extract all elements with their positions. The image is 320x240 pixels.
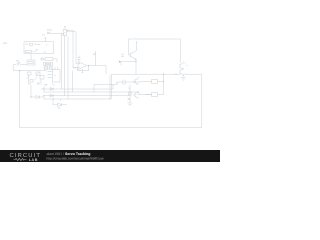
wire join x163.5 <box>163 74 165 94</box>
rail y74.5 <box>112 73 202 75</box>
wire vert x73 x76 to opamp <box>73 30 78 67</box>
component box B1 <box>44 63 53 66</box>
battery B2 <box>117 80 140 85</box>
ground G1 <box>128 103 133 106</box>
wire verticals from pot down <box>62 34 69 85</box>
svg-text:tm out: tm out <box>35 43 41 46</box>
transistor Q4 <box>133 91 138 98</box>
resistor R6 <box>152 93 158 97</box>
wire pot wiper right <box>67 30 76 32</box>
svg-text:http://circuitlab.com/circuit/: http://circuitlab.com/circuit/nsa/f6b8f1… <box>47 156 105 160</box>
wire pot left <box>47 33 63 35</box>
box module M1 <box>24 42 54 54</box>
diode D6 <box>53 99 67 107</box>
supply arrow V3 <box>136 42 138 50</box>
wire op-amp out <box>89 66 107 75</box>
svg-text:+5V: +5V <box>3 42 8 45</box>
potentiometer P1 <box>64 26 66 30</box>
probe node <box>119 61 121 63</box>
supply stub x95 <box>95 52 96 66</box>
op-amp U1 <box>78 62 87 70</box>
svg-text:servo: servo <box>47 29 53 32</box>
IC box U2 <box>53 70 61 83</box>
wire big loop left/bottom/right <box>20 71 202 128</box>
capacitor C1 <box>78 56 81 62</box>
svg-text:LAB: LAB <box>29 158 38 162</box>
bus wires <box>44 84 139 99</box>
wire top rect <box>129 39 181 55</box>
transistor Q3 <box>133 77 138 84</box>
transistor Q5 <box>180 69 184 77</box>
wire V2 to R2 <box>20 64 27 66</box>
resistor R4 <box>40 58 45 61</box>
mid column parts <box>128 84 132 103</box>
resistor R2 box <box>27 60 35 65</box>
row of boxes <box>44 67 53 69</box>
wire rail y70.7 <box>13 70 46 72</box>
footer bar <box>0 150 220 162</box>
resistor R5 <box>152 80 158 84</box>
supply arrow above M1 <box>45 37 47 41</box>
svg-text:pot: pot <box>47 31 50 34</box>
svg-text:ss: ss <box>44 51 46 54</box>
svg-text:ic: ic <box>54 74 55 77</box>
resistor R1 <box>29 44 33 46</box>
wire source loop <box>13 65 16 71</box>
transistor Q2 <box>180 62 184 70</box>
resistor R2 <box>25 50 34 52</box>
wire drop x180 <box>179 39 181 63</box>
ground G2 <box>181 78 186 81</box>
diode D5 <box>50 94 53 97</box>
diode D4 <box>50 88 53 91</box>
small parts cluster <box>28 72 32 75</box>
supply stub op-amp <box>82 69 83 73</box>
logo zigzag <box>14 158 27 160</box>
bus fan-in verticals <box>62 71 73 99</box>
wire left edge down <box>111 74 113 99</box>
feedback loop <box>78 66 89 71</box>
diode D3 <box>36 95 44 99</box>
junction dots <box>19 61 177 100</box>
diode D1 <box>34 49 37 52</box>
wire M1 to R2 <box>30 54 32 61</box>
